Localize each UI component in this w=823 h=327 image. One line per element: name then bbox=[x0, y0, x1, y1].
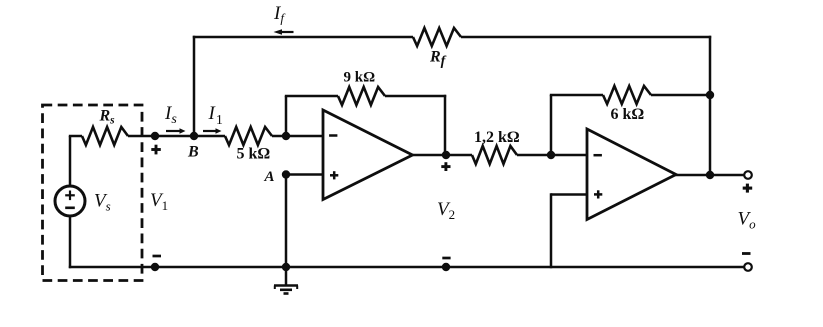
svg-text:5 kΩ: 5 kΩ bbox=[237, 146, 271, 163]
resistor Rs bbox=[82, 127, 128, 145]
wire op2 output to terminal bbox=[675, 174, 745, 177]
dashed source box bbox=[43, 105, 143, 281]
svg-text:1,2 kΩ: 1,2 kΩ bbox=[474, 129, 520, 146]
resistor 6k bbox=[603, 86, 651, 104]
wire 1.2k to op2 minus input bbox=[517, 154, 587, 157]
wire right vertical from top feedback down to output node bbox=[709, 36, 712, 175]
wire Vs bottom down and right along bottom rail bbox=[69, 216, 72, 269]
node 6k to top feedback junction bbox=[706, 91, 714, 99]
wire node A to op1 plus input bbox=[286, 173, 323, 176]
wire 9k feedback left vertical bbox=[285, 96, 288, 136]
wire 9k feedback right vertical bbox=[444, 95, 447, 155]
source Vs bbox=[55, 186, 85, 216]
terminal Vo minus bbox=[742, 252, 751, 255]
node B bbox=[190, 132, 198, 140]
wire op2 plus input to bottom rail bbox=[551, 193, 587, 196]
svg-text:6 kΩ: 6 kΩ bbox=[611, 106, 645, 123]
arrow I1 bbox=[203, 130, 217, 132]
wire top feedback from node B to right vertical bbox=[193, 36, 413, 39]
wire 6k feedback left vertical bbox=[550, 95, 553, 155]
op-amp U1 bbox=[323, 110, 413, 200]
node V2 minus terminal bbox=[442, 263, 450, 271]
resistor 5k bbox=[225, 127, 272, 145]
node V1 plus terminal bbox=[151, 132, 159, 140]
terminal Vo plus bbox=[744, 171, 752, 179]
arrow Is bbox=[166, 130, 181, 132]
node op2 output junction bbox=[706, 171, 714, 179]
svg-text:A: A bbox=[264, 169, 275, 185]
node V1 minus terminal bbox=[151, 263, 159, 271]
wire node A down to ground rail bbox=[285, 173, 288, 267]
resistor 9k bbox=[338, 87, 385, 105]
ground bbox=[285, 267, 288, 286]
wire 9k feedback top bbox=[285, 95, 338, 98]
wire Rs to node B to 5k bbox=[128, 135, 225, 138]
node op2 inverting input junction bbox=[547, 151, 555, 159]
wire 6k feedback top bbox=[550, 94, 603, 97]
svg-text:B: B bbox=[187, 144, 199, 161]
node A bbox=[282, 170, 290, 178]
resistor Rf bbox=[413, 28, 461, 46]
wire 5k to op1 minus input bbox=[272, 135, 323, 138]
node ground junction bbox=[282, 263, 290, 271]
wire Vs top to Rs bbox=[69, 136, 72, 187]
svg-text:9 kΩ: 9 kΩ bbox=[344, 70, 376, 86]
node op1 inverting input junction bbox=[282, 132, 290, 140]
arrow If pointing left bbox=[281, 31, 294, 33]
wire vertical at node B up to feedback bbox=[193, 36, 196, 136]
op-amp U2 bbox=[587, 129, 676, 220]
wire op1 output bbox=[412, 154, 472, 157]
node op1 output junction V2 plus bbox=[442, 151, 450, 159]
resistor 1.2k bbox=[472, 146, 517, 164]
